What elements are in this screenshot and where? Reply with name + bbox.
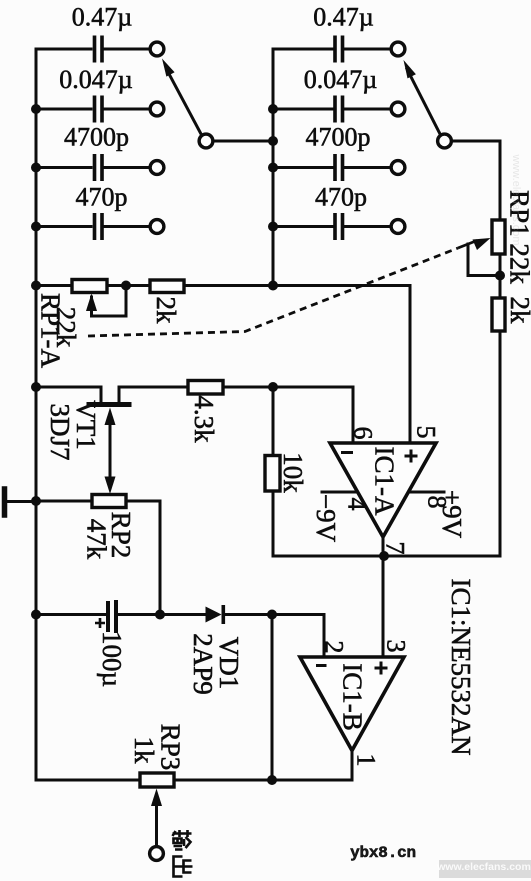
wire (105, 48, 149, 51)
potentiometer RP3 body (140, 773, 174, 787)
node pin6 10k (268, 382, 278, 392)
wire (346, 108, 390, 111)
capacitor 0.47u right (335, 37, 343, 60)
label shu (output char 1) (173, 830, 192, 850)
svg-text:470p: 470p (315, 183, 367, 212)
svg-text:IC1-B: IC1-B (338, 663, 368, 731)
wire diode to junction (225, 613, 324, 616)
svg-text:4700p: 4700p (64, 123, 129, 152)
switch contact 1 left (150, 42, 164, 56)
node right bus row3 (268, 163, 278, 173)
wire pin2 (323, 615, 326, 658)
wire drain (119, 387, 188, 402)
switch contact 4 right (391, 220, 405, 234)
wire (105, 225, 149, 228)
RP3 wiper arrow (151, 789, 162, 807)
wire pin7 output (382, 537, 385, 657)
resistor 2k left body (150, 280, 184, 293)
svg-text:1: 1 (352, 754, 381, 767)
label chu (output char 2) (174, 857, 193, 877)
wire (346, 166, 390, 169)
input terminal bar (2, 489, 8, 515)
wire 4.3k to pin6 (223, 387, 353, 443)
svg-text:4.3k: 4.3k (189, 395, 219, 443)
capacitor 0.047u right (335, 97, 343, 120)
node left bus RP2 (31, 496, 41, 506)
svg-text:0.047µ: 0.047µ (59, 65, 133, 94)
label minus IC1-A (341, 451, 353, 454)
wire left row2 (36, 108, 91, 111)
wire VD1 node down (271, 615, 274, 781)
wire pole to right bus (215, 140, 274, 143)
wire (346, 225, 390, 228)
resistor 4.3k body (188, 381, 223, 395)
svg-text:10k: 10k (278, 452, 308, 493)
svg-text:47k: 47k (82, 519, 112, 560)
switch S1b pole (438, 134, 452, 148)
wire link arrow segment (458, 241, 477, 249)
node RP1 wiper (495, 271, 505, 281)
node left bus row4 (31, 222, 41, 232)
resistor 2k right body (492, 298, 505, 331)
wire RP1 wiper tie (468, 244, 500, 276)
switch contact 3 right (391, 161, 405, 175)
output terminal (150, 847, 164, 861)
node right bus pin5 (268, 281, 278, 291)
svg-text:7: 7 (381, 542, 410, 555)
potentiometer RP1-A body (72, 280, 107, 293)
switch S1b arrow (404, 60, 416, 78)
switch contact 1 right (391, 42, 405, 56)
node RP1-A wiper (121, 281, 131, 291)
arrowheads (86, 59, 491, 807)
wire (346, 48, 390, 51)
wire JFET row (36, 387, 101, 402)
wire right row4 (273, 225, 332, 228)
switch S1b arm (407, 69, 440, 133)
svg-text:2AP9: 2AP9 (188, 633, 218, 695)
dashed gang link (88, 248, 458, 336)
svg-text:3DJ7: 3DJ7 (45, 403, 75, 460)
svg-text:1k: 1k (129, 737, 159, 765)
node left bus row2 (31, 104, 41, 114)
wire (105, 166, 149, 169)
svg-text:0.47µ: 0.47µ (313, 3, 374, 32)
potentiometer RP2 body (92, 495, 126, 508)
svg-text:www.elecfans.com: www.elecfans.com (436, 861, 531, 873)
svg-text:2k: 2k (151, 297, 181, 325)
label plus IC1-A (405, 450, 418, 463)
svg-text:www.elecfans.com: www.elecfans.com (510, 153, 522, 245)
node output bottom (267, 775, 277, 785)
wire RP3 wiper (155, 804, 158, 846)
capacitor 470p right (335, 215, 343, 238)
svg-text:RP3: RP3 (156, 724, 186, 771)
svg-text:IC1-A: IC1-A (370, 447, 400, 516)
switch contact 2 left (150, 102, 164, 116)
svg-text:100µ: 100µ (97, 631, 127, 687)
label minus IC1-B (316, 664, 327, 667)
wire bottom row (36, 779, 352, 782)
wire RP1 to 2k (499, 255, 502, 298)
wire RP1-A row (36, 286, 410, 444)
wire right bus down (384, 331, 500, 556)
wire left row3 (36, 166, 91, 169)
wire (105, 108, 149, 111)
switch S1a arrow (162, 59, 175, 77)
wire left bus (35, 49, 38, 780)
svg-text:0.47µ: 0.47µ (72, 3, 133, 32)
node output IC1-A (379, 551, 389, 561)
node RP2 cap (155, 610, 165, 620)
wire AGC row (36, 613, 105, 616)
wire pin1 output (351, 751, 354, 781)
wire left row1 (36, 48, 91, 51)
node left bus 100u (31, 610, 41, 620)
svg-text:IC1:NE5532AN: IC1:NE5532AN (446, 579, 476, 756)
switch contact 3 left (150, 161, 164, 175)
svg-text:0.047µ: 0.047µ (304, 65, 378, 94)
VT1 gate arrow (105, 408, 116, 426)
capacitor 0.047u left (95, 97, 103, 120)
node right bus row2 (268, 104, 278, 114)
resistor 10k body (265, 456, 280, 492)
svg-text:−9V: −9V (311, 494, 341, 543)
capacitor 0.47u left (95, 37, 103, 60)
potentiometer RP1 body (492, 220, 505, 254)
switch S1a pole (199, 134, 213, 148)
svg-text:470p: 470p (76, 183, 128, 212)
svg-text:4: 4 (343, 498, 372, 511)
diode VD1 (206, 605, 226, 624)
svg-text:2: 2 (320, 641, 349, 654)
node left bus RP1-A (31, 281, 41, 291)
wire pole to RP1 (453, 141, 500, 219)
wire RP1-A wiper tie (92, 286, 127, 317)
label plus 100u (95, 618, 105, 628)
switch S1a arm (168, 72, 201, 133)
capacitor 4700p left (95, 156, 103, 179)
wire (118, 613, 204, 616)
transistor VT1 channel (89, 402, 129, 407)
wire 10k branch (272, 387, 275, 556)
svg-text:4700p: 4700p (306, 123, 371, 152)
svg-text:RP1-A: RP1-A (36, 293, 66, 369)
svg-text:+9V: +9V (437, 490, 467, 539)
svg-text:2k: 2k (505, 297, 531, 325)
wire right row1 (273, 48, 332, 51)
switch contact 4 left (150, 220, 164, 234)
RP2 wiper arrow (105, 477, 116, 495)
wire RP2 right (126, 501, 160, 615)
node right bus pole (268, 136, 278, 146)
wire right row3 (273, 166, 332, 169)
node VD1 out (267, 610, 277, 620)
capacitor 4700p right (335, 156, 343, 179)
svg-text:6: 6 (349, 427, 378, 440)
RP1-A wiper arrow (86, 294, 97, 312)
RP1 wiper arrow (473, 238, 491, 250)
wire right bus (272, 49, 275, 286)
node left bus source (31, 382, 41, 392)
svg-text:3: 3 (382, 640, 411, 653)
svg-text:5: 5 (412, 426, 441, 439)
wire feedback (273, 555, 384, 558)
capacitor 100u plates (108, 602, 116, 631)
switch contact 2 right (391, 102, 405, 116)
capacitor 470p left (95, 215, 103, 238)
node right bus row4 (268, 222, 278, 232)
wire left row4 (36, 225, 91, 228)
wire input (5, 500, 37, 503)
label plus IC1-B (375, 662, 388, 675)
wire right row2 (273, 108, 332, 111)
wire pin4 stub (322, 491, 356, 494)
op-amp IC1-A (330, 443, 436, 537)
wire VT1 gate to RP2 wiper (109, 424, 112, 478)
op-amp IC1-B (300, 657, 404, 751)
watermark band bottom right (439, 860, 531, 878)
wire pin8 stub (409, 491, 444, 494)
node left bus row3 (31, 163, 41, 173)
wire RP2 left (36, 500, 92, 503)
svg-text:ybx8.cn: ybx8.cn (350, 844, 416, 862)
